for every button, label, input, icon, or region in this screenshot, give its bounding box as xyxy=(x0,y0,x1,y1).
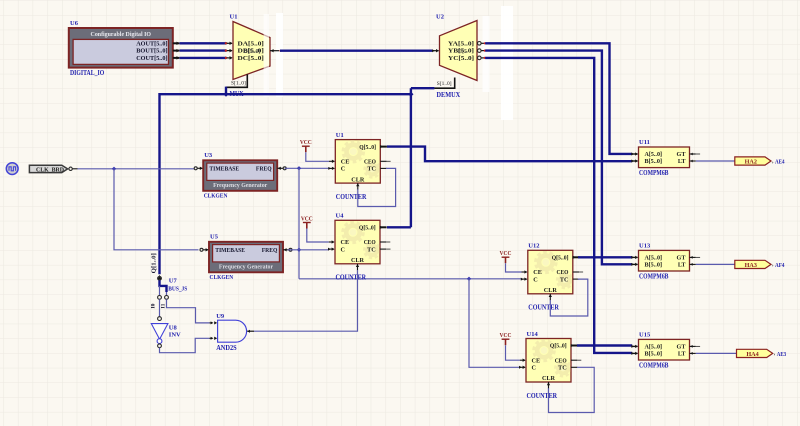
svg-text:CEO: CEO xyxy=(555,357,567,364)
bus U4 Q to select xyxy=(387,226,411,228)
svg-text:YA[5..0]: YA[5..0] xyxy=(448,41,474,47)
svg-text:FREQ: FREQ xyxy=(256,166,272,173)
svg-text:U5: U5 xyxy=(210,233,219,240)
bus U6 to U1 row 3 xyxy=(180,57,227,59)
wire CLK_BRD to U3 xyxy=(78,168,197,170)
power VCC for U4 xyxy=(301,215,313,228)
svg-text:C: C xyxy=(532,365,536,372)
white streak over mux xyxy=(264,14,269,97)
svg-text:B[5..0]: B[5..0] xyxy=(645,158,663,165)
svg-text:A[5..0]: A[5..0] xyxy=(645,151,663,158)
svg-text:COUNTER: COUNTER xyxy=(336,194,367,201)
bus demux S riser xyxy=(410,88,412,94)
wire U13 LT to HA3 xyxy=(696,263,735,265)
output flag HA2 xyxy=(735,157,771,166)
bus mux S riser xyxy=(225,87,227,95)
svg-text:Frequency Generator: Frequency Generator xyxy=(213,182,267,189)
wire U8 out to U9 xyxy=(160,338,210,352)
svg-text:U7: U7 xyxy=(169,277,178,284)
svg-text:D[5: D[5 xyxy=(458,49,467,55)
wire U12 TC feedback xyxy=(550,279,588,316)
svg-text:VCC: VCC xyxy=(500,250,512,257)
svg-text:›: › xyxy=(772,263,774,269)
wire VCC to U14 CE xyxy=(506,345,520,360)
svg-text:CLK_BRD: CLK_BRD xyxy=(36,166,64,173)
svg-text:TIMEBASE: TIMEBASE xyxy=(209,166,239,173)
output flag HA3 xyxy=(735,260,771,269)
wire VCC to U4 CE xyxy=(307,229,329,243)
pin stub U2 in xyxy=(432,50,438,52)
svg-text:COMPM6B: COMPM6B xyxy=(639,274,669,281)
svg-text:COMPM6B: COMPM6B xyxy=(639,170,669,177)
svg-text:BOUT[5..0]: BOUT[5..0] xyxy=(136,48,167,55)
svg-text:U13: U13 xyxy=(639,242,651,249)
svg-text:TC: TC xyxy=(367,166,376,173)
svg-text:I0: I0 xyxy=(150,303,156,308)
wire U1 TC feedback xyxy=(358,168,396,206)
mux S pin xyxy=(226,74,247,87)
svg-text:CLKGEN: CLKGEN xyxy=(204,193,228,200)
svg-text:CE: CE xyxy=(341,159,350,166)
svg-text:CLKGEN: CLKGEN xyxy=(210,274,234,281)
svg-text:CEO: CEO xyxy=(557,269,569,276)
comparator U13 xyxy=(631,250,700,271)
svg-text:HA4: HA4 xyxy=(746,351,758,358)
wire U3 FREQ to U1 C xyxy=(285,167,329,169)
net label AE4 xyxy=(772,159,785,166)
svg-text:DEMUX: DEMUX xyxy=(437,92,461,99)
bus select down to U4 Q xyxy=(410,94,412,227)
svg-text:AE4: AE4 xyxy=(775,159,785,166)
svg-text:B[5..0]: B[5..0] xyxy=(645,351,663,358)
pin stub U6 out 3 xyxy=(173,57,180,59)
bus U1 to U2 xyxy=(280,50,432,52)
svg-text:CEO: CEO xyxy=(364,239,376,246)
svg-text:C: C xyxy=(341,246,345,253)
wire U15 LT to HA4 xyxy=(696,352,737,354)
svg-text:Q[5..0]: Q[5..0] xyxy=(359,144,376,151)
svg-text:COUNTER: COUNTER xyxy=(528,305,559,312)
svg-text:CLR: CLR xyxy=(351,257,365,264)
power VCC for U14 xyxy=(500,332,512,345)
svg-text:DC[5..0]: DC[5..0] xyxy=(238,56,264,62)
wire clock to U14 C xyxy=(469,279,520,368)
junction CLK branch xyxy=(112,167,116,171)
svg-text:TIMEBASE: TIMEBASE xyxy=(215,247,245,254)
and gate U9 xyxy=(210,320,255,342)
svg-text:COUNTER: COUNTER xyxy=(336,275,367,282)
svg-text:HA2: HA2 xyxy=(745,158,757,165)
svg-text:CLR: CLR xyxy=(544,287,558,294)
svg-text:TC: TC xyxy=(560,276,569,283)
svg-text:CE: CE xyxy=(533,269,542,276)
junction mux S xyxy=(223,92,228,97)
wire I0 to U8 xyxy=(159,299,161,317)
svg-text:COMPM6B: COMPM6B xyxy=(639,363,669,370)
svg-text:FREQ: FREQ xyxy=(262,247,278,254)
svg-text:Q[5..0]: Q[5..0] xyxy=(550,343,567,350)
svg-text:DIGITAL_IO: DIGITAL_IO xyxy=(70,70,104,77)
wire U14 TC feedback xyxy=(549,367,595,412)
demux U2 xyxy=(437,21,477,87)
svg-text:U6: U6 xyxy=(70,20,79,27)
power VCC for U1 xyxy=(300,139,312,152)
IC U6 Configurable Digital IO xyxy=(69,28,173,68)
pin stub U2 out 3 xyxy=(477,57,484,59)
bus select horizontal xyxy=(160,93,411,95)
svg-text:U2: U2 xyxy=(436,14,444,21)
svg-text:GT: GT xyxy=(677,255,687,262)
svg-text:VCC: VCC xyxy=(500,332,512,339)
svg-text:AND2S: AND2S xyxy=(216,345,237,352)
net label AF4 xyxy=(772,262,785,269)
bus entry U7 BUS_JS xyxy=(158,275,169,300)
svg-text:Q[1..0]: Q[1..0] xyxy=(151,253,157,273)
svg-text:INV: INV xyxy=(169,331,181,338)
output flag HA4 xyxy=(737,349,773,358)
power VCC for U12 xyxy=(500,250,512,263)
demux S pin xyxy=(434,78,455,89)
svg-text:LT: LT xyxy=(678,351,687,358)
svg-text:LT: LT xyxy=(678,158,687,165)
svg-text:AF4: AF4 xyxy=(775,262,785,269)
svg-text:DA[5..0]: DA[5..0] xyxy=(238,41,264,47)
svg-text:B[5..0]: B[5..0] xyxy=(645,262,663,269)
pin stub CLK_BRD xyxy=(69,168,78,170)
svg-text:I1: I1 xyxy=(160,303,166,308)
pin stub U1 in 1 xyxy=(226,42,232,44)
counter U14 xyxy=(519,339,581,389)
svg-text:GT: GT xyxy=(677,151,687,158)
white streak right of demux pins xyxy=(483,16,490,92)
pin stub U6 out 2 xyxy=(173,50,180,52)
white streak right of mux xyxy=(276,13,283,97)
svg-text:U9: U9 xyxy=(216,313,225,320)
svg-text:›: › xyxy=(772,159,774,165)
svg-text:A[5..0]: A[5..0] xyxy=(645,344,663,351)
bus U6 to U1 row 2 xyxy=(180,49,227,51)
port CLK_BRD xyxy=(29,165,67,173)
wire U11 LT to HA2 xyxy=(696,160,735,162)
comparator U11 xyxy=(631,147,700,168)
pin stub U6 out 1 xyxy=(173,42,180,44)
svg-text:VCC: VCC xyxy=(301,215,313,222)
bus YB xyxy=(485,51,632,265)
wire clock to U12 C xyxy=(299,278,522,280)
junction demux S xyxy=(408,92,413,97)
wire U5 FREQ to U4 C xyxy=(288,249,330,251)
svg-text:Configurable Digital IO: Configurable Digital IO xyxy=(91,31,152,38)
svg-text:AOUT[5..0]: AOUT[5..0] xyxy=(136,40,167,47)
net label AE3 xyxy=(774,351,787,358)
svg-text:CE: CE xyxy=(341,239,350,246)
svg-text:Q[5..0]: Q[5..0] xyxy=(359,225,376,232)
junction clock branch xyxy=(467,277,471,281)
wire CLK down to U5 xyxy=(114,169,199,250)
wire U9 out to U4 CLR xyxy=(254,270,358,331)
svg-text:CLR: CLR xyxy=(542,375,556,382)
svg-text:GT: GT xyxy=(677,344,687,351)
comparator U15 xyxy=(631,339,700,360)
counter U1 xyxy=(328,140,390,190)
frequency generator U5 xyxy=(200,242,292,272)
clock source icon xyxy=(6,163,18,175)
svg-text:S[1..0]: S[1..0] xyxy=(231,81,246,87)
svg-text:TC: TC xyxy=(558,365,567,372)
svg-text:BUS_JS: BUS_JS xyxy=(168,286,187,293)
svg-text:U11: U11 xyxy=(639,139,650,146)
svg-text:U15: U15 xyxy=(639,331,651,338)
bus U14 Q to U15 A xyxy=(577,344,632,346)
pin stub U1 out xyxy=(270,50,279,52)
svg-text:B[5..0]: B[5..0] xyxy=(244,49,261,55)
svg-text:U8: U8 xyxy=(169,324,178,331)
svg-text:YC[5..0]: YC[5..0] xyxy=(448,56,474,62)
mux U1 xyxy=(231,22,270,87)
frequency generator U3 xyxy=(194,160,286,191)
pin stub U2 out 2 xyxy=(477,50,484,52)
white streak near demux right xyxy=(501,6,513,120)
bus demux S horizontal xyxy=(411,87,435,89)
svg-text:U3: U3 xyxy=(204,152,213,159)
counter U4 xyxy=(328,220,390,270)
svg-text:CE: CE xyxy=(532,357,541,364)
junction U3 out xyxy=(297,166,301,170)
counter U12 xyxy=(521,250,583,300)
wire VCC to U1 CE xyxy=(306,152,329,161)
svg-text:COUT[5..0]: COUT[5..0] xyxy=(136,55,167,62)
bus U1 Q to U11 B xyxy=(387,147,632,162)
svg-text:HA3: HA3 xyxy=(745,262,757,269)
bus U6 to U1 row 1 xyxy=(180,42,227,44)
svg-text:S[1..0]: S[1..0] xyxy=(437,81,452,87)
bus select left riser xyxy=(158,93,160,274)
svg-text:C: C xyxy=(533,276,537,283)
svg-text:U1: U1 xyxy=(230,14,238,21)
svg-text:CLR: CLR xyxy=(351,176,365,183)
svg-text:TC: TC xyxy=(367,246,376,253)
bus YA xyxy=(485,43,632,154)
wire clock vertical xyxy=(298,168,300,278)
svg-text:U14: U14 xyxy=(527,331,539,338)
no-connect U4 TC xyxy=(387,248,391,250)
svg-text:U12: U12 xyxy=(528,243,539,250)
svg-text:AE3: AE3 xyxy=(777,351,787,358)
svg-text:›: › xyxy=(774,352,776,358)
svg-text:U1: U1 xyxy=(336,132,344,139)
bus YC xyxy=(485,58,632,353)
inverter U8 xyxy=(151,317,168,348)
svg-text:A[5..0]: A[5..0] xyxy=(645,255,663,262)
svg-text:COUNTER: COUNTER xyxy=(527,393,558,400)
junction U5 out xyxy=(297,248,301,252)
bus U12 Q to U13 A xyxy=(578,256,632,258)
pin stub U2 out 1 xyxy=(477,42,484,44)
svg-text:Q[5..0]: Q[5..0] xyxy=(552,255,569,262)
svg-text:CEO: CEO xyxy=(364,159,376,166)
wire I1 to U9 xyxy=(167,299,210,323)
wire VCC to U12 CE xyxy=(506,263,522,272)
svg-text:U4: U4 xyxy=(336,213,345,220)
svg-text:LT: LT xyxy=(678,262,687,269)
svg-text:C: C xyxy=(341,166,345,173)
pin stub U1 in 2 xyxy=(226,50,232,52)
pin stub U1 in 3 xyxy=(226,57,232,59)
svg-text:VCC: VCC xyxy=(300,139,312,146)
svg-text:Frequency Generator: Frequency Generator xyxy=(219,264,273,271)
